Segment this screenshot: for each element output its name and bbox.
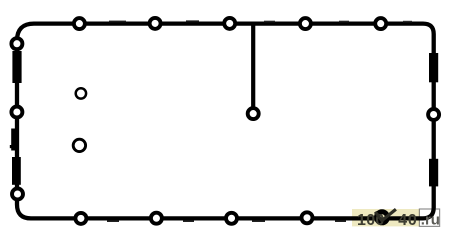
svg-text:.ru: .ru <box>421 211 440 228</box>
tick mark on top edge B <box>186 20 199 22</box>
bolt hole left 1 <box>11 38 22 49</box>
bolt hole left 2 <box>11 107 22 118</box>
thick bar right upper <box>429 53 438 82</box>
bolt hole bottom 1 <box>75 213 86 224</box>
tick mark on top edge E <box>403 21 412 23</box>
thick bar left offset <box>11 129 17 151</box>
bolt hole bottom 3 <box>226 213 237 224</box>
bolt hole top 1 <box>74 18 85 29</box>
bolt hole left 3 <box>12 189 23 200</box>
bolt hole top 5 <box>375 18 386 29</box>
bolt hole top 4 <box>300 18 311 29</box>
thick bar left upper <box>12 51 21 83</box>
tick mark on bottom edge A <box>107 220 119 222</box>
tick mark on top edge C <box>264 21 275 23</box>
watermark logo V <box>375 209 396 220</box>
small notch left <box>10 145 14 148</box>
bolt hole bottom 5 (under watermark) <box>377 212 388 223</box>
thick bar left lower <box>12 157 21 185</box>
bolt hole top 3 <box>224 18 235 29</box>
bolt hole right 1 <box>428 109 439 120</box>
tick mark on top edge A <box>109 21 126 23</box>
tick mark on top edge D <box>339 21 349 23</box>
watermark .ru box <box>419 209 439 226</box>
gasket outline <box>17 24 434 219</box>
bolt hole bottom 4 <box>302 212 313 223</box>
bolt hole on drop wire <box>248 108 259 119</box>
inner hole small upper <box>76 88 86 98</box>
vertical drop wire (T line) <box>251 24 255 107</box>
inner hole lower <box>73 139 85 151</box>
tick mark on bottom edge B <box>183 220 194 222</box>
svg-text:40: 40 <box>398 212 417 229</box>
tick mark on bottom edge D <box>335 220 346 222</box>
bolt hole bottom 2 <box>151 213 162 224</box>
thick bar right lower <box>429 159 438 187</box>
bolt hole top 2 <box>150 18 161 29</box>
tick mark on bottom edge C <box>252 220 265 222</box>
watermark yellow box <box>352 209 419 226</box>
